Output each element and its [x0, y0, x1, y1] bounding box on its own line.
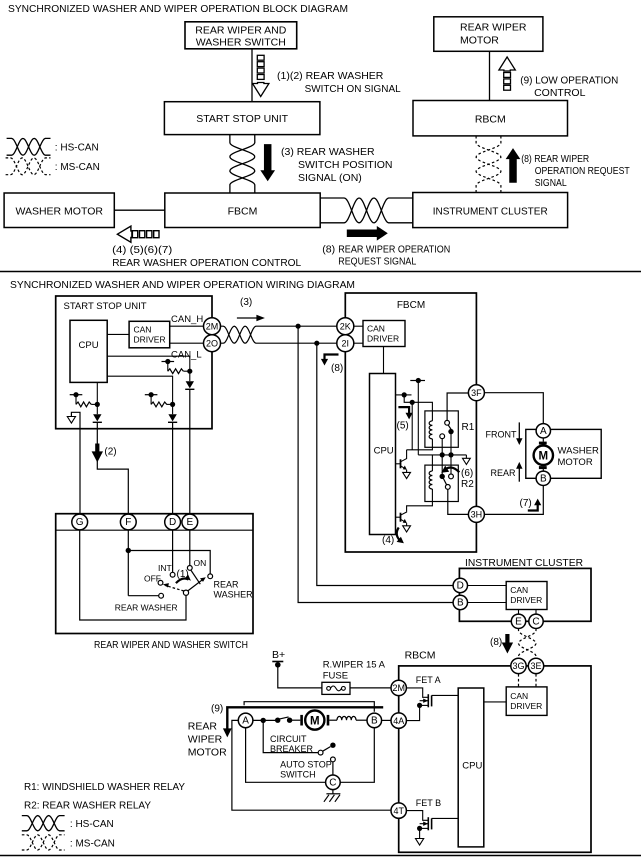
- connector C (rear wiper motor): [326, 775, 341, 790]
- segmented arrow (1)(2) down: [253, 55, 269, 96]
- connector A (washer motor): [536, 424, 550, 438]
- svg-text:CPU: CPU: [374, 446, 394, 457]
- svg-text:D: D: [457, 581, 464, 592]
- contact ON: [187, 566, 192, 571]
- wire cpu to can driver (rbcm): [484, 701, 506, 703]
- svg-text:WASHER: WASHER: [214, 590, 254, 600]
- svg-text:(2): (2): [104, 447, 116, 458]
- svg-text:(9): (9): [211, 704, 223, 715]
- svg-text:M: M: [310, 715, 320, 727]
- svg-text:D: D: [169, 517, 176, 528]
- wire can driver to cpu: [383, 347, 385, 374]
- wire can driver to C: [535, 610, 537, 615]
- box start stop unit: [164, 102, 320, 135]
- wire washer motor to fbcm: [114, 209, 165, 211]
- connector B (cluster): [453, 595, 467, 609]
- connector 3G: [511, 658, 526, 673]
- transistor Q2 (fbcm): [396, 512, 407, 526]
- svg-text:B: B: [457, 598, 464, 609]
- connector C (cluster): [529, 614, 543, 628]
- wire D to can driver: [468, 585, 507, 587]
- svg-text:3G: 3G: [512, 661, 524, 671]
- dashed stubs 3G/3E to can driver: [519, 674, 537, 687]
- ground marker (start stop unit): [71, 412, 80, 514]
- svg-text:CAN: CAN: [510, 691, 528, 701]
- cell E: resistor: [168, 369, 184, 374]
- relay R1 box: [425, 411, 458, 447]
- node motor junction: [261, 718, 266, 723]
- svg-text:REAR WIPER: REAR WIPER: [460, 21, 527, 33]
- wire F to contacts: [126, 530, 211, 596]
- bracket over motor: [244, 702, 374, 712]
- dashed twisted pair cluster to rbcm: [519, 629, 537, 659]
- connector 2M: [204, 318, 221, 335]
- label (4)(5)(6)(7) rear washer operation control: [112, 244, 301, 269]
- ground marker (rbcm): [416, 839, 424, 846]
- connector A (rear wiper motor): [238, 713, 253, 728]
- svg-text:3H: 3H: [471, 510, 483, 520]
- connector D (switch): [165, 514, 181, 530]
- cell D: transistor/diode: [172, 404, 174, 414]
- svg-text:R.WIPER 15 A: R.WIPER 15 A: [323, 660, 386, 671]
- svg-text:OPERATION REQUEST: OPERATION REQUEST: [535, 165, 630, 177]
- svg-text:A: A: [540, 426, 547, 437]
- svg-text:(8): (8): [490, 637, 502, 648]
- connector 2O: [204, 335, 221, 352]
- connector 2I: [337, 335, 354, 352]
- arrow (8) down to rbcm: [490, 634, 513, 654]
- wire B to 3H: [484, 486, 543, 515]
- legend HS-CAN (bottom): [22, 816, 65, 831]
- svg-text:F: F: [125, 517, 131, 528]
- cell E: transistor/diode: [189, 371, 191, 381]
- cpu U (start stop unit): [70, 320, 107, 382]
- relay R2 coil top wire: [431, 455, 433, 471]
- svg-text:R2: R2: [461, 479, 474, 490]
- can driver (rbcm): [506, 687, 547, 716]
- connector 4A: [391, 713, 406, 728]
- svg-text:CAN_L: CAN_L: [171, 350, 202, 361]
- svg-text:FBCM: FBCM: [228, 206, 258, 218]
- svg-text:3F: 3F: [471, 388, 482, 398]
- wire 2K to can driver: [354, 325, 363, 327]
- label FRONT with arrow: [486, 422, 523, 445]
- wire C to B: [340, 728, 374, 783]
- wire can_h branch down to cluster B: [298, 326, 453, 602]
- svg-text:MOTOR: MOTOR: [188, 747, 227, 759]
- svg-text:DRIVER: DRIVER: [510, 701, 542, 711]
- svg-text:(3) REAR WASHER: (3) REAR WASHER: [281, 146, 375, 158]
- svg-text:: MS-CAN: : MS-CAN: [55, 162, 100, 173]
- svg-text:CAN: CAN: [134, 325, 152, 335]
- cell E: wire cpu out: [107, 356, 190, 371]
- svg-text:(4): (4): [382, 535, 394, 546]
- arrow (2): [92, 444, 103, 463]
- svg-text:2M: 2M: [206, 321, 219, 331]
- legend MS-CAN (top): [6, 158, 51, 175]
- output marker triangle (6): [463, 458, 471, 464]
- svg-text:REAR WIPER OPERATION: REAR WIPER OPERATION: [338, 244, 450, 256]
- svg-text:(7): (7): [520, 498, 532, 509]
- wire 2I to can driver: [354, 342, 363, 344]
- label washer motor: [558, 446, 599, 469]
- cell F: wire down with (2): [97, 423, 128, 515]
- connector F: [120, 514, 136, 530]
- svg-text:CONTROL: CONTROL: [534, 87, 585, 99]
- cpu U (rbcm): [458, 688, 484, 847]
- relay R2 contacts: [440, 455, 469, 515]
- supply tap B+ (fbcm): [410, 378, 425, 455]
- svg-text:(6): (6): [461, 468, 473, 479]
- svg-text:SWITCH ON SIGNAL: SWITCH ON SIGNAL: [305, 83, 401, 95]
- box fbcm (block): [165, 193, 320, 228]
- wire D to INT contact: [172, 530, 174, 572]
- box rear wiper motor: [434, 17, 543, 52]
- svg-text:R1: WINDSHIELD WASHER RELAY: R1: WINDSHIELD WASHER RELAY: [24, 781, 185, 793]
- box rbcm (wiring): [399, 666, 591, 852]
- connector E (cluster): [511, 614, 525, 628]
- connector D (cluster): [453, 578, 467, 592]
- contact OFF: [158, 580, 163, 585]
- svg-text:4A: 4A: [393, 716, 404, 726]
- wire pivot to G: [80, 530, 186, 620]
- svg-text:RBCM: RBCM: [475, 114, 506, 126]
- arrow (8) bent near 2I: [321, 355, 343, 375]
- box instrument cluster (block): [413, 193, 568, 228]
- arrow (6) curved: [441, 466, 474, 490]
- relay R1 coil bottom wire: [407, 439, 433, 450]
- svg-text:(8) REAR WIPER: (8) REAR WIPER: [521, 153, 589, 165]
- arrow (5) bent: [397, 407, 413, 431]
- box instrument cluster (wiring): [459, 568, 591, 621]
- svg-text:(3): (3): [240, 297, 252, 308]
- cell E: supply tap: [162, 359, 175, 371]
- svg-text:(9) LOW OPERATION: (9) LOW OPERATION: [520, 75, 618, 87]
- segmented arrow (9) up: [499, 57, 515, 90]
- motor M (rear wiper): [300, 711, 337, 730]
- svg-text:SYNCHRONIZED WASHER AND WIPER: SYNCHRONIZED WASHER AND WIPER OPERATION …: [8, 3, 348, 15]
- arrow (4) curved: [382, 528, 404, 547]
- svg-text:REAR: REAR: [214, 580, 240, 590]
- svg-text:SIGNAL (ON): SIGNAL (ON): [298, 172, 362, 184]
- circuit breaker: [270, 717, 314, 754]
- svg-text:OFF: OFF: [144, 574, 161, 584]
- label REAR with arrow: [491, 462, 523, 482]
- svg-text:FET A: FET A: [416, 675, 441, 685]
- connector B (rear wiper motor): [367, 713, 382, 728]
- header band: [56, 529, 253, 531]
- dashed twisted pair rbcm to instrument cluster (MS-CAN): [476, 136, 501, 193]
- wire can_l: [170, 342, 204, 344]
- cell D: resistor: [151, 402, 167, 407]
- label rear wiper motor: [188, 721, 227, 759]
- svg-text:E: E: [515, 617, 522, 628]
- relay R1 contacts: [440, 393, 469, 455]
- box rear wiper and washer switch: [185, 22, 297, 49]
- wire cpu to can driver: [107, 333, 129, 335]
- connector 3F: [468, 385, 484, 401]
- arrow (7) bent: [520, 498, 542, 511]
- svg-text:2O: 2O: [206, 338, 218, 348]
- cell E: node: [187, 369, 192, 374]
- cell E: wire down to E: [189, 390, 191, 515]
- node can_l junction: [314, 341, 319, 346]
- B+ terminal: [272, 649, 322, 688]
- svg-text:(5): (5): [397, 421, 409, 432]
- twisted pair start stop unit to fbcm (HS-CAN): [230, 135, 255, 193]
- svg-text:A: A: [242, 716, 249, 727]
- svg-text:E: E: [186, 517, 193, 528]
- inter-relay rail: [418, 452, 466, 458]
- box washer motor (wiring): [526, 429, 601, 478]
- label (3) with arrow: [237, 297, 265, 321]
- svg-text:(4) (5)(6)(7): (4) (5)(6)(7): [112, 244, 172, 256]
- svg-text:RBCM: RBCM: [405, 650, 436, 662]
- svg-text:DRIVER: DRIVER: [134, 335, 166, 345]
- auto stop switch: [263, 720, 335, 779]
- wire switch to start stop unit: [251, 49, 253, 102]
- svg-text:MOTOR: MOTOR: [558, 457, 593, 468]
- svg-text:M: M: [539, 451, 549, 463]
- svg-text:INSTRUMENT CLUSTER: INSTRUMENT CLUSTER: [465, 557, 583, 569]
- wire rear wiper motor to rbcm: [489, 51, 491, 100]
- connector G: [72, 514, 88, 530]
- wire A down to C row: [246, 728, 326, 783]
- label (8) rear wiper operation request signal (bottom): [322, 244, 450, 268]
- node can_h junction: [296, 324, 301, 329]
- svg-text:R2: REAR WASHER RELAY: R2: REAR WASHER RELAY: [24, 800, 151, 812]
- arrow (8) right: [347, 226, 388, 241]
- connector E (switch): [182, 514, 198, 530]
- contact INT: [170, 572, 175, 577]
- svg-text:WASHER: WASHER: [558, 446, 599, 457]
- svg-text:G: G: [76, 517, 84, 528]
- svg-text:: HS-CAN: : HS-CAN: [55, 143, 99, 154]
- svg-text:START STOP UNIT: START STOP UNIT: [196, 113, 288, 125]
- wire B to 4A: [382, 719, 391, 721]
- svg-text:START STOP UNIT: START STOP UNIT: [64, 301, 147, 312]
- svg-text:CPU: CPU: [462, 761, 482, 772]
- connector 3E: [528, 658, 543, 673]
- svg-text:B: B: [371, 716, 378, 727]
- cpu U (fbcm): [370, 374, 396, 535]
- box start stop unit (wiring): [56, 296, 212, 429]
- chassis ground below C: [324, 790, 341, 802]
- relay R1 coil: [429, 421, 432, 439]
- wire can_h: [170, 325, 204, 327]
- svg-text:DRIVER: DRIVER: [367, 334, 399, 344]
- label (3) rear washer switch position signal: [281, 146, 393, 184]
- box rbcm (block): [413, 101, 568, 136]
- svg-text:SWITCH: SWITCH: [280, 770, 316, 780]
- svg-text:(8): (8): [322, 244, 335, 256]
- svg-text:: HS-CAN: : HS-CAN: [70, 819, 114, 830]
- switch pivot and arms: [163, 570, 206, 595]
- connector 4T: [391, 803, 406, 818]
- svg-text:2M: 2M: [392, 683, 405, 693]
- arrow (9) thick: [211, 704, 383, 738]
- svg-text:R1: R1: [462, 422, 475, 433]
- svg-text:CAN: CAN: [510, 585, 528, 595]
- twisted pair fbcm to instrument cluster (HS-CAN): [320, 198, 413, 223]
- can driver (fbcm): [363, 321, 405, 347]
- svg-text:FUSE: FUSE: [323, 671, 348, 682]
- cell D: wire cpu out: [107, 376, 172, 404]
- can driver (start stop unit): [129, 321, 170, 348]
- legend MS-CAN (bottom): [22, 835, 65, 850]
- svg-text:INSTRUMENT CLUSTER: INSTRUMENT CLUSTER: [433, 206, 548, 218]
- svg-text:4T: 4T: [393, 806, 404, 816]
- cell F: wire from cpu bottom: [96, 382, 98, 404]
- coil (rear wiper motor): [337, 716, 356, 720]
- cell F: resistor: [76, 402, 91, 407]
- wire 3F to washer motor A: [484, 393, 543, 424]
- connector 2K: [337, 318, 354, 335]
- svg-text:REAR: REAR: [188, 721, 218, 733]
- transistor Q1 (fbcm): [396, 450, 407, 473]
- svg-text:SWITCH POSITION: SWITCH POSITION: [298, 159, 393, 171]
- svg-text:REAR WIPER AND WASHER SWITCH: REAR WIPER AND WASHER SWITCH: [94, 639, 248, 651]
- cell F: node: [95, 402, 100, 407]
- svg-text:CIRCUIT: CIRCUIT: [270, 734, 307, 744]
- arrow (1) curved: [176, 569, 191, 583]
- relay R2 coil: [429, 471, 432, 489]
- svg-text:AUTO STOP: AUTO STOP: [280, 760, 332, 770]
- svg-text:CPU: CPU: [79, 340, 99, 351]
- svg-text:DRIVER: DRIVER: [510, 595, 542, 605]
- wire can_h to 2K: [259, 325, 337, 327]
- svg-text:CAN: CAN: [367, 324, 385, 334]
- connector 2M (rbcm): [391, 680, 406, 695]
- svg-text:SYNCHRONIZED WASHER AND WIPER: SYNCHRONIZED WASHER AND WIPER OPERATION …: [10, 279, 355, 291]
- svg-text:REAR WIPER AND: REAR WIPER AND: [195, 25, 286, 37]
- cell D: supply tap: [145, 392, 158, 404]
- svg-text:(1)(2) REAR WASHER: (1)(2) REAR WASHER: [277, 70, 384, 82]
- contact rear washer (right): [208, 574, 213, 579]
- svg-text:FBCM: FBCM: [397, 300, 425, 311]
- svg-text:REAR WASHER: REAR WASHER: [115, 603, 178, 613]
- svg-text:FRONT: FRONT: [486, 430, 517, 440]
- relay R2 coil bottom wire: [407, 489, 433, 512]
- svg-text:REAR WASHER OPERATION CONTROL: REAR WASHER OPERATION CONTROL: [112, 257, 301, 269]
- wire A to breaker: [253, 719, 277, 721]
- svg-text:3E: 3E: [530, 661, 541, 671]
- svg-text:2I: 2I: [342, 338, 350, 348]
- wire cpu tap with node: [396, 392, 433, 450]
- box washer motor (block): [4, 193, 114, 228]
- bottom border line: [0, 855, 641, 857]
- box fbcm (wiring): [345, 293, 476, 552]
- segmented arrow (4)(5)(6)(7) left: [117, 226, 159, 242]
- svg-text:SIGNAL: SIGNAL: [535, 177, 567, 189]
- contact rear washer (left): [159, 593, 164, 598]
- svg-text:: MS-CAN: : MS-CAN: [70, 839, 115, 850]
- separator line: [0, 271, 641, 273]
- connector B (washer motor): [536, 471, 550, 485]
- wire B to can driver: [468, 602, 507, 604]
- label (1)(2) rear washer switch on signal: [277, 70, 401, 95]
- arrow (3) down: [260, 144, 275, 181]
- fuse R.WIPER 15A: [322, 660, 391, 695]
- legend HS-CAN (top): [7, 138, 51, 155]
- svg-text:REAR: REAR: [491, 468, 517, 478]
- motor M (washer): [534, 438, 553, 471]
- cell F: supply tap: [70, 392, 83, 404]
- svg-text:WASHER MOTOR: WASHER MOTOR: [15, 206, 103, 218]
- can driver (cluster): [506, 582, 547, 610]
- wire can_l branch down to cluster D: [317, 343, 453, 585]
- svg-text:WASHER SWITCH: WASHER SWITCH: [196, 37, 286, 49]
- label (9) low operation control: [520, 75, 618, 100]
- wire can_l to 2I: [259, 342, 337, 344]
- label (8) rear wiper operation request signal (right): [521, 153, 630, 189]
- svg-text:C: C: [532, 617, 539, 628]
- wire can driver to E: [518, 610, 520, 615]
- cell D: node: [170, 402, 175, 407]
- arrow (8) up: [506, 148, 521, 183]
- svg-text:REQUEST SIGNAL: REQUEST SIGNAL: [338, 256, 416, 268]
- wire A left to 4T: [232, 720, 391, 810]
- svg-text:B+: B+: [272, 649, 285, 661]
- svg-text:MOTOR: MOTOR: [460, 34, 499, 46]
- svg-text:INT: INT: [158, 563, 172, 573]
- svg-text:FET B: FET B: [416, 798, 441, 808]
- box rear wiper and washer switch (wiring): [56, 514, 253, 634]
- relay R2 box: [425, 465, 458, 501]
- svg-text:WIPER: WIPER: [188, 734, 223, 746]
- wire E to ON contact: [189, 530, 191, 566]
- svg-text:(8): (8): [331, 363, 343, 374]
- svg-text:ON: ON: [194, 558, 207, 568]
- cell F: transistor/diode: [96, 404, 98, 414]
- twisted pair CAN bus: [220, 326, 259, 343]
- svg-text:C: C: [329, 778, 336, 789]
- svg-text:CAN_H: CAN_H: [171, 314, 203, 325]
- cell D: wire down to D: [172, 423, 174, 515]
- connector 3H: [468, 506, 484, 522]
- svg-text:B: B: [540, 474, 547, 485]
- svg-text:2K: 2K: [340, 321, 351, 331]
